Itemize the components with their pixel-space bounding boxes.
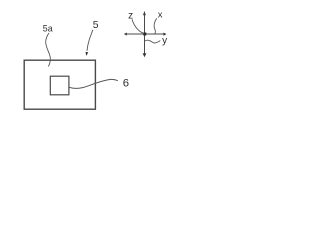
- leader line z: [132, 19, 144, 33]
- leader line 6: [69, 79, 118, 88]
- leader line 5: [87, 30, 93, 51]
- svg-text:5: 5: [93, 20, 99, 31]
- leader line 5a: [46, 33, 51, 67]
- center node dot: [143, 33, 146, 36]
- leader line x: [154, 18, 157, 34]
- right arrowhead: [163, 33, 166, 36]
- arrowhead 5: [86, 52, 89, 56]
- down arrowhead: [143, 53, 147, 57]
- svg-text:5a: 5a: [43, 23, 53, 34]
- up arrowhead: [143, 11, 146, 15]
- left arrowhead: [124, 33, 127, 36]
- coordinate axes: vertical axis line: [144, 13, 146, 54]
- svg-text:6: 6: [123, 77, 129, 89]
- inner rectangle 6: [50, 76, 69, 95]
- svg-text:y: y: [162, 36, 167, 47]
- leader line y: [145, 40, 161, 43]
- horizontal axis line: [126, 33, 164, 35]
- svg-text:x: x: [158, 10, 163, 21]
- outer rectangle 5: [24, 60, 95, 109]
